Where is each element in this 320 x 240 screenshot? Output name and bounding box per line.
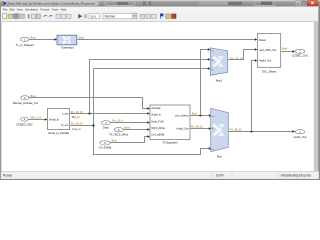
window background / canvas <box>0 0 320 180</box>
svg-text:Ovf_wENB: Ovf_wENB <box>151 133 164 137</box>
block TX Equalizer <box>150 105 190 144</box>
wire In4 to Data_FulS <box>110 121 150 123</box>
svg-text:WCS_Write: WCS_Write <box>151 126 165 130</box>
svg-text:100%: 100% <box>216 174 224 178</box>
wire R_out branch to Mux1 d1 and Mux d1 <box>70 67 212 154</box>
svg-text:Bool: Bool <box>31 35 37 39</box>
block Serial_to_Parallel <box>47 108 69 135</box>
block OVL_Detect <box>258 34 281 74</box>
wire In3 to TX Equalizer Activate <box>29 98 150 110</box>
wire In5 to WCS_Write <box>123 128 150 130</box>
wire In2 to Serial_In <box>28 118 47 120</box>
svg-text:Ready: Ready <box>3 174 13 178</box>
svg-text:Line_In: Line_In <box>72 127 81 131</box>
svg-text:Bool: Bool <box>282 47 288 51</box>
svg-text:Line_Detect: Line_Detect <box>175 113 189 117</box>
title bar <box>0 0 320 7</box>
svg-text:Audio_Out: Audio_Out <box>294 135 307 139</box>
toolbar icons right of combo <box>141 14 176 19</box>
wire TX Audio_Out to Mux d0 <box>190 127 211 129</box>
svg-text:OVL_Detect: OVL_Detect <box>262 70 277 74</box>
svg-text:Reset: Reset <box>259 38 266 42</box>
svg-text:TX Equalizer: TX Equalizer <box>162 140 177 144</box>
output port Out1 Audio_Out <box>294 130 307 139</box>
svg-text:Bool: Bool <box>124 125 130 129</box>
toolbar <box>0 12 320 22</box>
window bottom border <box>0 179 320 180</box>
svg-text:Aud_XPM_Out: Aud_XPM_Out <box>259 48 277 52</box>
wire In6 to Ovf_wENB <box>110 135 150 142</box>
svg-text:Audio_Out: Audio_Out <box>176 126 189 130</box>
wire Mux1 out to OVL_Detect Aud_XPM_Out <box>228 48 258 59</box>
input port In6 CH_ENAB <box>99 141 112 150</box>
svg-text:CODEC_ADC: CODEC_ADC <box>16 122 33 126</box>
svg-text:Serial_to_Parallel: Serial_to_Parallel <box>48 131 69 135</box>
svg-text:TX_INCS_Write: TX_INCS_Write <box>109 132 129 136</box>
minimize button <box>295 0 300 5</box>
app icon <box>2 1 6 5</box>
mux Mux1 (Xilinx) <box>210 48 227 83</box>
svg-text:d0: d0 <box>211 60 213 62</box>
svg-text:CODEC_OVL: CODEC_OVL <box>292 54 309 58</box>
svg-text:d0: d0 <box>212 128 214 130</box>
input port In1 Tx_In_Delayed <box>16 37 35 47</box>
wire Line_Detect to Mux sel and Mux1 sel <box>190 48 212 116</box>
toolbar icons group 3: undo redo <box>44 15 53 16</box>
wire OVL_Detect to CODEC_OVL <box>281 50 295 52</box>
svg-text:Audio_Out: Audio_Out <box>259 59 272 63</box>
output port Out2 CODEC_OVL <box>292 49 309 57</box>
window right border <box>318 7 320 181</box>
svg-text:In: In <box>66 40 68 42</box>
svg-text:Bool: Bool <box>192 111 198 115</box>
mux Mux (Xilinx) <box>211 108 229 158</box>
svg-text:Mux1: Mux1 <box>216 78 223 82</box>
wire L_out to TX Equalizer Audio In (junction to Mux1 d0) <box>70 58 211 114</box>
close button <box>307 0 318 5</box>
svg-text:d1: d1 <box>211 69 213 71</box>
svg-text:Data: Data <box>103 126 109 130</box>
status bar <box>1 171 319 178</box>
svg-text:UFix_1_0: UFix_1_0 <box>30 115 42 119</box>
wire Mux out to Audio_Out port (junction to OVL Audio_Out) <box>228 59 295 132</box>
play / stop buttons <box>78 14 87 19</box>
sim time box <box>89 14 100 19</box>
input port In5 TX_INCS_Write <box>109 128 129 137</box>
svg-text:Data_FulS: Data_FulS <box>151 119 164 123</box>
toolbar icons group 4 <box>56 14 71 18</box>
svg-text:R_out: R_out <box>61 123 68 127</box>
mode combo box "Normal" <box>103 13 137 18</box>
svg-text:Audio In: Audio In <box>151 113 161 117</box>
input port In2 CODEC_ADC <box>16 117 33 126</box>
wire gateway to OVL_Detect Reset <box>77 38 258 40</box>
right scrollbar <box>314 22 319 172</box>
svg-text:Tx_In_Delayed: Tx_In_Delayed <box>16 43 35 47</box>
svg-text:VariableStepDiscrete: VariableStepDiscrete <box>281 174 312 178</box>
svg-text:Activate: Activate <box>151 106 161 110</box>
input port In3 Manual_Activate_CG <box>13 96 38 105</box>
svg-text:Mux: Mux <box>217 155 223 159</box>
svg-text:Scra_538_rbd_1p1/Audio_and_Mod: Scra_538_rbd_1p1/Audio_and_Mode_Control/… <box>8 2 96 6</box>
menu bar <box>0 7 320 12</box>
svg-text:Mic_In: Mic_In <box>72 115 80 119</box>
svg-text:Manual_Activate_CG: Manual_Activate_CG <box>13 101 38 105</box>
svg-text:CH_ENAB: CH_ENAB <box>99 146 112 150</box>
wire In1 to gateway <box>29 38 57 40</box>
svg-text:L_out: L_out <box>62 112 69 116</box>
svg-text:File Edit View Simulatio: File Edit View Simulation Format Tools H… <box>3 7 67 11</box>
window left border <box>0 7 2 181</box>
svg-text:d1: d1 <box>212 149 214 151</box>
toolbar icons group 2: cut copy paste <box>28 14 40 18</box>
svg-text:Serial_In: Serial_In <box>49 118 60 122</box>
gateway block DWDT1 (Xilinx) <box>57 35 77 49</box>
svg-text:10.0: 10.0 <box>90 15 96 19</box>
title text <box>7 1 99 6</box>
toolbar icons group 1: new open save print <box>3 14 25 19</box>
svg-text:Gateway1: Gateway1 <box>61 46 74 50</box>
input port In4 Data <box>102 121 111 130</box>
svg-text:Normal: Normal <box>105 15 116 19</box>
maximize button <box>301 0 306 5</box>
